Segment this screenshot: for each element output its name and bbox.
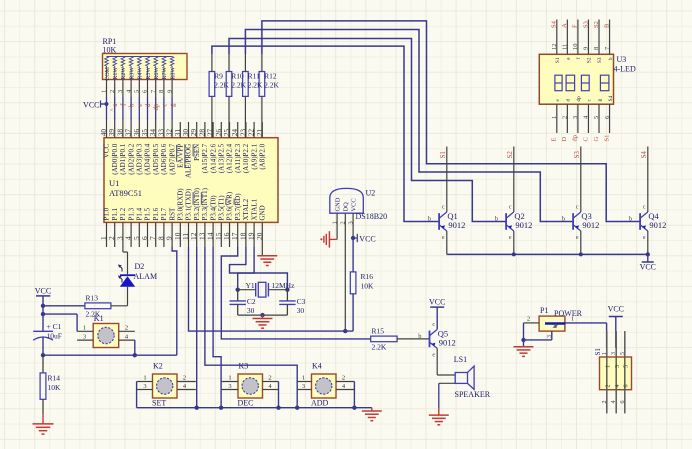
svg-text:D2: D2: [135, 262, 145, 271]
svg-text:(A9)P2.1: (A9)P2.1: [250, 143, 258, 169]
svg-text:P1.0: P1.0: [103, 207, 111, 220]
svg-text:S1: S1: [439, 151, 447, 159]
svg-text:D: D: [561, 137, 568, 142]
svg-text:dp: dp: [576, 96, 582, 102]
svg-text:S3: S3: [582, 21, 589, 28]
svg-text:(A13)P2.5: (A13)P2.5: [218, 143, 226, 173]
svg-text:S1: S1: [603, 135, 610, 142]
svg-text:3: 3: [547, 335, 553, 338]
svg-text:R8W: R8W: [170, 67, 176, 80]
svg-text:R7W: R7W: [162, 67, 168, 80]
svg-text:4: 4: [615, 385, 621, 388]
svg-text:XTAL2: XTAL2: [242, 198, 250, 220]
svg-text:P3.2(INT0): P3.2(INT0): [193, 187, 201, 220]
svg-text:S4: S4: [608, 96, 614, 102]
svg-text:B: B: [603, 23, 610, 28]
svg-text:DEC: DEC: [238, 399, 254, 408]
svg-text:R2W: R2W: [121, 67, 127, 80]
svg-text:P1.1: P1.1: [111, 207, 119, 220]
svg-text:VCC: VCC: [359, 235, 375, 244]
svg-text:S2: S2: [593, 21, 600, 28]
svg-text:(AD3)P0.3: (AD3)P0.3: [136, 143, 144, 174]
svg-text:b: b: [629, 216, 632, 223]
svg-text:dp: dp: [572, 135, 579, 142]
svg-text:(AD0)P0.0: (AD0)P0.0: [111, 143, 119, 174]
svg-text:e: e: [432, 352, 435, 358]
svg-text:U3: U3: [617, 55, 627, 64]
svg-text:f: f: [575, 57, 582, 59]
svg-text:g: g: [169, 103, 177, 107]
svg-text:(AD7)P0.7: (AD7)P0.7: [168, 143, 176, 174]
svg-text:VCC: VCC: [608, 305, 624, 314]
svg-text:2.2K: 2.2K: [264, 81, 279, 90]
svg-text:S1: S1: [555, 57, 561, 63]
svg-text:VCC: VCC: [103, 143, 111, 158]
svg-text:3: 3: [302, 383, 305, 390]
svg-text:6: 6: [623, 385, 629, 388]
svg-text:9012: 9012: [582, 220, 599, 230]
svg-text:(AD4)P0.4: (AD4)P0.4: [144, 143, 152, 174]
svg-text:P1: P1: [540, 306, 548, 315]
svg-text:R15: R15: [372, 327, 385, 336]
svg-text:8: 8: [593, 47, 600, 50]
svg-text:1: 1: [551, 116, 558, 119]
svg-text:(AD1)P0.1: (AD1)P0.1: [119, 143, 127, 174]
svg-text:R4W: R4W: [138, 67, 144, 80]
svg-text:GND: GND: [335, 197, 342, 211]
svg-text:30: 30: [247, 306, 255, 315]
svg-text:K4: K4: [312, 362, 322, 371]
svg-text:c: c: [432, 322, 435, 328]
svg-text:R13: R13: [86, 294, 99, 303]
svg-text:P3.1(TXD): P3.1(TXD): [185, 188, 193, 220]
svg-text:e: e: [509, 235, 512, 241]
svg-text:2: 2: [562, 116, 569, 119]
svg-text:AT89C51: AT89C51: [109, 188, 142, 198]
svg-text:(A8)P2.0: (A8)P2.0: [259, 143, 267, 169]
svg-text:d: d: [144, 103, 152, 107]
svg-text:VCC: VCC: [35, 287, 51, 296]
svg-text:c: c: [576, 205, 579, 211]
svg-text:F: F: [572, 24, 579, 28]
svg-text:P1.7: P1.7: [160, 207, 168, 220]
svg-text:c: c: [509, 205, 512, 211]
svg-text:5: 5: [593, 116, 600, 119]
svg-text:b: b: [128, 103, 136, 107]
svg-text:P3.3(INT1): P3.3(INT1): [201, 187, 209, 220]
svg-text:P3.5(T1): P3.5(T1): [218, 195, 226, 221]
svg-text:3: 3: [615, 365, 621, 368]
svg-text:(A10)P2.2: (A10)P2.2: [242, 143, 250, 173]
svg-text:(AD2)P0.2: (AD2)P0.2: [127, 143, 135, 174]
svg-text:b: b: [495, 216, 498, 223]
svg-text:9012: 9012: [448, 220, 465, 230]
svg-text:c: c: [643, 205, 646, 211]
svg-text:(A12)P2.4: (A12)P2.4: [226, 143, 234, 173]
svg-text:10uF: 10uF: [47, 332, 62, 341]
svg-text:C2: C2: [247, 297, 256, 306]
svg-text:5: 5: [623, 365, 629, 368]
svg-text:K3: K3: [239, 362, 249, 371]
svg-text:G: G: [593, 137, 600, 142]
svg-text:30: 30: [297, 306, 305, 315]
svg-text:c: c: [442, 205, 445, 211]
svg-text:2.2K: 2.2K: [214, 81, 229, 90]
svg-text:GND: GND: [259, 205, 267, 220]
svg-text:VCC: VCC: [640, 263, 656, 272]
svg-text:DS18B20: DS18B20: [356, 212, 388, 221]
svg-text:2.2K: 2.2K: [231, 81, 246, 90]
svg-text:RST: RST: [168, 207, 176, 221]
svg-text:1: 1: [228, 375, 231, 382]
svg-text:12: 12: [551, 44, 558, 51]
svg-text:2: 2: [602, 401, 608, 404]
svg-text:R11: R11: [248, 72, 260, 81]
svg-text:VCC: VCC: [429, 298, 445, 307]
svg-text:5: 5: [620, 352, 626, 355]
svg-text:10K: 10K: [361, 282, 375, 291]
svg-text:11: 11: [562, 44, 569, 50]
svg-text:b: b: [562, 216, 565, 223]
svg-text:R16: R16: [361, 272, 374, 281]
svg-text:PSEN: PSEN: [193, 144, 201, 161]
svg-text:K1: K1: [94, 314, 104, 323]
svg-text:g: g: [597, 99, 603, 102]
svg-text:R14: R14: [48, 374, 61, 383]
svg-text:U1: U1: [109, 178, 119, 188]
svg-text:4: 4: [611, 401, 617, 404]
svg-text:(A14)P2.6: (A14)P2.6: [209, 143, 217, 173]
svg-text:ALAM: ALAM: [134, 272, 158, 281]
svg-text:e: e: [136, 104, 144, 107]
svg-text:e: e: [576, 235, 579, 241]
svg-text:2: 2: [527, 316, 530, 323]
svg-text:1: 1: [571, 316, 574, 323]
svg-text:(AD5)P0.5: (AD5)P0.5: [152, 143, 160, 174]
svg-text:dp: dp: [152, 103, 160, 111]
svg-text:20: 20: [255, 232, 264, 240]
svg-text:3: 3: [572, 116, 579, 119]
svg-text:SPEAKER: SPEAKER: [455, 390, 491, 399]
svg-text:XTAL1: XTAL1: [250, 198, 258, 220]
svg-text:1: 1: [143, 375, 146, 382]
svg-text:S3: S3: [573, 151, 581, 159]
svg-text:P1.4: P1.4: [136, 207, 144, 220]
svg-text:LS1: LS1: [454, 355, 467, 364]
svg-text:c: c: [160, 104, 168, 107]
svg-text:R5W: R5W: [146, 67, 152, 80]
svg-text:2.2K: 2.2K: [372, 343, 387, 352]
svg-text:S2: S2: [587, 57, 593, 63]
svg-text:2: 2: [125, 325, 128, 332]
svg-text:3: 3: [228, 383, 231, 390]
svg-text:(AD6)P0.6: (AD6)P0.6: [160, 143, 168, 174]
svg-text:b: b: [608, 57, 614, 60]
svg-text:P1.5: P1.5: [144, 207, 152, 220]
svg-text:3: 3: [143, 383, 146, 390]
svg-text:S3: S3: [597, 57, 603, 63]
svg-text:3: 3: [611, 352, 617, 355]
svg-text:P1.6: P1.6: [152, 207, 160, 220]
svg-text:POWER: POWER: [554, 309, 583, 318]
svg-text:e: e: [643, 235, 646, 241]
svg-text:R1W: R1W: [113, 67, 119, 80]
svg-text:S2: S2: [506, 151, 514, 159]
svg-text:(A11)P2.3: (A11)P2.3: [234, 143, 242, 173]
svg-text:EA/VPP: EA/VPP: [177, 144, 185, 168]
svg-text:e: e: [442, 235, 445, 241]
svg-text:2: 2: [268, 375, 271, 382]
svg-text:E: E: [551, 138, 558, 142]
svg-text:P3.6(WR): P3.6(WR): [226, 191, 234, 220]
svg-text:+ C1: + C1: [47, 322, 62, 331]
svg-text:R6W: R6W: [154, 67, 160, 80]
svg-text:COM: COM: [105, 66, 111, 80]
svg-text:R9: R9: [214, 72, 223, 81]
svg-text:1: 1: [605, 365, 611, 368]
svg-text:VCC: VCC: [83, 101, 99, 110]
svg-text:1: 1: [302, 375, 305, 382]
svg-text:P3.7(RD): P3.7(RD): [234, 193, 242, 221]
svg-text:2: 2: [342, 375, 345, 382]
svg-text:10: 10: [572, 44, 579, 51]
svg-text:K2: K2: [153, 362, 163, 371]
svg-text:ADD: ADD: [311, 399, 329, 408]
svg-text:b: b: [428, 216, 431, 223]
svg-text:P1.3: P1.3: [127, 207, 135, 220]
svg-text:S1: S1: [594, 348, 602, 356]
svg-text:R12: R12: [264, 72, 277, 81]
svg-text:2.2K: 2.2K: [248, 81, 263, 90]
svg-text:12MHz: 12MHz: [272, 281, 296, 290]
svg-text:C3: C3: [297, 297, 306, 306]
svg-text:4-LED: 4-LED: [614, 65, 636, 74]
svg-text:2: 2: [605, 385, 611, 388]
svg-text:1: 1: [83, 325, 86, 332]
svg-text:C: C: [582, 137, 589, 141]
svg-text:S4: S4: [640, 151, 648, 159]
svg-text:R3W: R3W: [129, 67, 135, 80]
svg-text:P3.0(RXD): P3.0(RXD): [177, 188, 185, 221]
svg-text:9012: 9012: [515, 220, 532, 230]
svg-text:A: A: [561, 23, 568, 28]
svg-text:3: 3: [83, 334, 86, 341]
svg-text:VCC: VCC: [351, 198, 358, 211]
svg-text:S4: S4: [551, 20, 558, 28]
svg-text:d: d: [566, 99, 572, 102]
svg-text:b: b: [418, 333, 421, 340]
svg-text:6: 6: [620, 401, 626, 404]
svg-text:SET: SET: [152, 399, 166, 408]
svg-text:ALE/PROG: ALE/PROG: [185, 144, 193, 178]
svg-text:10K: 10K: [103, 46, 117, 55]
svg-text:1: 1: [602, 352, 608, 355]
svg-text:DQ: DQ: [343, 202, 350, 212]
svg-text:9012: 9012: [439, 337, 456, 347]
svg-text:9: 9: [583, 47, 590, 50]
svg-text:(A15)P2.7: (A15)P2.7: [201, 143, 209, 173]
svg-text:P1.2: P1.2: [119, 207, 127, 220]
svg-text:10K: 10K: [48, 383, 62, 392]
svg-text:Y1: Y1: [246, 281, 255, 290]
svg-text:P3.4(T0): P3.4(T0): [209, 195, 217, 221]
svg-text:U2: U2: [366, 189, 376, 198]
svg-text:<: <: [110, 107, 114, 114]
svg-text:2: 2: [183, 375, 186, 382]
svg-text:9012: 9012: [649, 220, 666, 230]
